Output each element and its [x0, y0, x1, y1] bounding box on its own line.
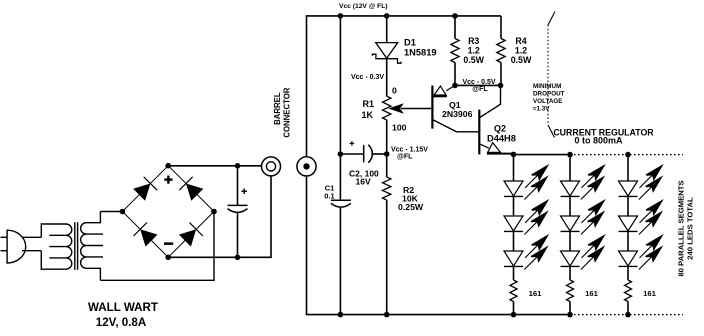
svg-text:0.1: 0.1: [324, 192, 334, 201]
R3 label: [463, 36, 484, 65]
R1 label 100: [392, 123, 407, 133]
svg-text:0.5W: 0.5W: [463, 55, 484, 65]
wire LED string 1 segment 1: [513, 196, 515, 216]
svg-text:@FL: @FL: [397, 154, 413, 161]
wire ground bottom rail: [306, 314, 570, 316]
light emission arrows 21a: [582, 166, 604, 188]
svg-text:D44H8: D44H8: [487, 134, 516, 144]
transformer T1 secondary winding: [81, 212, 103, 281]
wire D1 to R1: [386, 59, 388, 96]
wire top rail to D1: [386, 16, 388, 43]
bridge diode (left to +): [133, 177, 157, 201]
svg-text:0.25W: 0.25W: [398, 202, 424, 212]
svg-text:0.5W: 0.5W: [511, 55, 532, 65]
light emission arrows 33b: [639, 247, 661, 269]
svg-text:BARREL: BARREL: [273, 92, 282, 125]
Q1 collector wire: [432, 120, 479, 132]
wire C2 right: [371, 153, 386, 155]
Q1 label: [442, 100, 473, 119]
svg-text:R4: R4: [515, 36, 526, 46]
light emission arrows 32b: [639, 212, 661, 234]
wire Vcc top rail: [306, 15, 501, 17]
wire barrel plug down to ground rail: [306, 176, 308, 315]
Vcc-0.5V annotation: [462, 79, 495, 93]
capacitor C2 (electrolytic): [350, 141, 373, 163]
svg-text:WALL WART: WALL WART: [88, 301, 158, 314]
Q1 emitter wire: [432, 85, 455, 96]
minimum dropout annotation: [533, 83, 565, 113]
node C1/C2 junction: [338, 151, 344, 157]
AC plug P1: [1, 230, 42, 263]
wire secondary top to bridge AC node: [100, 211, 122, 213]
barrel plug (center pin): [297, 157, 316, 176]
capacitor C1: [331, 200, 351, 207]
LED D11: [504, 181, 523, 196]
Q2 collector wire: [479, 85, 500, 117]
wire resistor 3 to ground rail: [627, 302, 629, 315]
R2 label: [398, 185, 424, 212]
wire R3 to sense node: [454, 63, 456, 86]
svg-text:D1: D1: [404, 38, 416, 48]
light emission arrows 32a: [640, 201, 662, 223]
filter capacitor wire bottom: [237, 212, 239, 257]
LED D13: [504, 251, 523, 266]
potentiometer R1 element: [383, 96, 391, 120]
diode D1 (schottky): [372, 43, 401, 64]
node bridge + output: [165, 163, 171, 169]
node R2 ground: [384, 312, 390, 318]
ballast resistor 161 (string 2): [567, 280, 574, 302]
svg-text:VOLTAGE: VOLTAGE: [533, 98, 563, 105]
svg-text:CONNECTOR: CONNECTOR: [283, 87, 292, 137]
light emission arrows 21b: [581, 177, 603, 199]
svg-text:MINIMUM: MINIMUM: [533, 83, 561, 90]
D1 label: [404, 38, 437, 58]
svg-text:≈1.3V: ≈1.3V: [533, 106, 550, 113]
ballast resistor 161 (string 1): [510, 280, 517, 302]
light emission arrows 11b: [524, 177, 546, 199]
svg-text:161: 161: [529, 289, 543, 298]
wire LED string 1 to resistor: [513, 266, 515, 280]
BARREL CONNECTOR label: [273, 87, 292, 137]
wire bridge - to barrel jack sleeve: [168, 176, 271, 257]
wire LED top rail: [514, 154, 571, 156]
node bridge AC right: [211, 209, 217, 215]
node Q2 emitter / LED rail: [511, 152, 517, 158]
bridge diode (- to right): [179, 223, 203, 247]
wire LED string 3 segment 2: [627, 231, 629, 251]
node top rail / D1 branch: [384, 13, 390, 19]
R4 label: [511, 36, 532, 65]
light emission arrows 11a: [525, 166, 547, 188]
light emission arrows 23b: [581, 247, 603, 269]
minimum dropout bracket: [548, 12, 555, 138]
WALL WART caption: [88, 301, 158, 329]
svg-text:DROPOUT: DROPOUT: [533, 91, 565, 98]
wire Vcc vertical from barrel plug: [306, 16, 308, 157]
wire LED top rail dotted continuation: [570, 154, 683, 156]
svg-text:Vcc (12V @ FL): Vcc (12V @ FL): [339, 3, 388, 10]
bridge diode (- to left): [134, 223, 158, 247]
161 value label (string 1): [529, 289, 543, 298]
svg-text:1K: 1K: [361, 110, 373, 120]
LED D23: [561, 251, 580, 266]
bridge diode (right to +): [179, 177, 203, 201]
wire LED string 2 segment 2: [569, 231, 571, 251]
node filter cap bottom: [235, 254, 241, 260]
light emission arrows 22b: [581, 212, 603, 234]
161 value label (string 3): [643, 289, 657, 298]
light emission arrows 33a: [640, 236, 662, 258]
wire LED string 3 segment 1: [627, 196, 629, 216]
Vcc-1.15V annotation: [391, 147, 428, 161]
wire C1 to ground rail: [339, 207, 341, 314]
wire resistor 2 to ground rail: [569, 302, 571, 315]
wire LED string 2 to resistor: [569, 266, 571, 280]
barrel jack (outer): [262, 157, 281, 176]
wire top rail to C1: [339, 16, 341, 200]
node filter cap top: [235, 163, 241, 169]
filter capacitor (electrolytic): [228, 188, 248, 212]
wire sense node horizontal: [455, 84, 501, 86]
resistor R4: [497, 39, 505, 63]
light emission arrows 31b: [639, 177, 661, 199]
node R1/R2/C2: [384, 151, 390, 157]
wire bridge + to barrel jack: [168, 165, 261, 167]
svg-text:@FL: @FL: [472, 86, 488, 93]
filter capacitor wire top: [237, 166, 239, 206]
node sense left: [452, 83, 458, 89]
svg-text:161: 161: [585, 289, 599, 298]
bridge - label: [164, 242, 173, 245]
R1 label: [361, 99, 374, 120]
node top rail / R3: [452, 13, 458, 19]
LED D33: [619, 251, 638, 266]
svg-text:0: 0: [392, 86, 397, 96]
LED D31: [619, 181, 638, 196]
LED D22: [561, 216, 580, 231]
Q2 emitter wire: [479, 144, 513, 154]
Vcc label: [339, 3, 388, 10]
ballast resistor 161 (string 3): [625, 280, 632, 302]
wire LED string 2 segment 1: [569, 196, 571, 216]
wire C2 left: [340, 153, 363, 155]
bridge rectifier diamond wires: [122, 166, 214, 258]
C1 value label: [324, 184, 334, 201]
node bridge AC left: [120, 209, 126, 215]
light emission arrows 13b: [524, 247, 546, 269]
wire LED string 1 top: [513, 155, 515, 181]
Q1 emitter arrow: [434, 86, 446, 95]
light emission arrows 22a: [582, 201, 604, 223]
Q2 label: [487, 124, 516, 144]
light emission arrows 12b: [524, 212, 546, 234]
wire top rail to R4: [500, 16, 502, 39]
transistor Q1 base bar: [431, 86, 433, 129]
node string 1 ground: [511, 312, 517, 318]
wire LED string 1 segment 2: [513, 231, 515, 251]
Q2 emitter arrow: [488, 143, 501, 153]
svg-text:161: 161: [643, 289, 657, 298]
light emission arrows 13a: [525, 236, 547, 258]
node top rail / C1 branch: [338, 13, 344, 19]
node string 2 ground: [567, 312, 573, 318]
light emission arrows 31a: [640, 166, 662, 188]
wire node to R2: [386, 154, 388, 177]
transformer T1 primary winding: [41, 224, 72, 269]
node string 3 ground: [625, 312, 631, 318]
node C1 ground: [338, 312, 344, 318]
R1 wiper arrow: [388, 103, 431, 114]
C2 value label: [349, 169, 379, 187]
wire R4 to sense node: [500, 63, 502, 86]
Vcc-0.3V annotation: [351, 74, 384, 81]
transformer T1 core: [75, 222, 78, 270]
svg-text:12V, 0.8A: 12V, 0.8A: [96, 316, 147, 329]
svg-text:Vcc - 0.5V: Vcc - 0.5V: [462, 79, 495, 86]
resistor R3: [451, 39, 459, 63]
light emission arrows 23a: [582, 236, 604, 258]
LED D21: [561, 181, 580, 196]
80 PARALLEL SEGMENTS label: [677, 180, 695, 276]
svg-text:0 to 800mA: 0 to 800mA: [574, 136, 623, 146]
wire top rail to R3: [454, 16, 456, 39]
wire LED string 3 top: [627, 155, 629, 181]
transistor Q2 base bar: [478, 110, 480, 155]
wire secondary bottom to bridge AC node: [100, 212, 214, 281]
node bridge - output: [165, 254, 171, 260]
svg-text:80 PARALLEL SEGMENTS: 80 PARALLEL SEGMENTS: [677, 180, 686, 276]
svg-text:2N3906: 2N3906: [442, 109, 473, 119]
wire LED string 2 top: [569, 155, 571, 181]
svg-text:1N5819: 1N5819: [404, 48, 437, 58]
CURRENT REGULATOR caption: [553, 128, 654, 146]
svg-text:Vcc - 1.15V: Vcc - 1.15V: [391, 147, 428, 154]
wire LED string 3 to resistor: [627, 266, 629, 280]
wire R2 to ground rail: [386, 200, 388, 315]
wire R1 to node: [386, 120, 388, 154]
svg-text:Vcc - 0.3V: Vcc - 0.3V: [351, 74, 384, 81]
node sense right: [498, 83, 504, 89]
bridge + label: [164, 176, 172, 184]
LED D12: [504, 216, 523, 231]
svg-text:100: 100: [392, 123, 407, 133]
wire resistor 1 to ground rail: [513, 302, 515, 315]
LED D32: [619, 216, 638, 231]
161 value label (string 2): [585, 289, 599, 298]
svg-text:R3: R3: [468, 36, 479, 46]
resistor R2: [383, 177, 391, 200]
R1 label 0: [392, 86, 397, 96]
svg-text:R1: R1: [362, 99, 374, 109]
svg-text:1.2: 1.2: [468, 46, 480, 56]
svg-text:1.2: 1.2: [515, 46, 527, 56]
svg-text:240 LEDS TOTAL: 240 LEDS TOTAL: [686, 197, 695, 260]
node string 3 top: [625, 152, 631, 158]
svg-text:Q2: Q2: [494, 124, 506, 134]
node string 2 top: [567, 152, 573, 158]
wire ground rail dotted continuation: [570, 314, 683, 316]
svg-text:16V: 16V: [356, 177, 371, 187]
light emission arrows 12a: [525, 201, 547, 223]
